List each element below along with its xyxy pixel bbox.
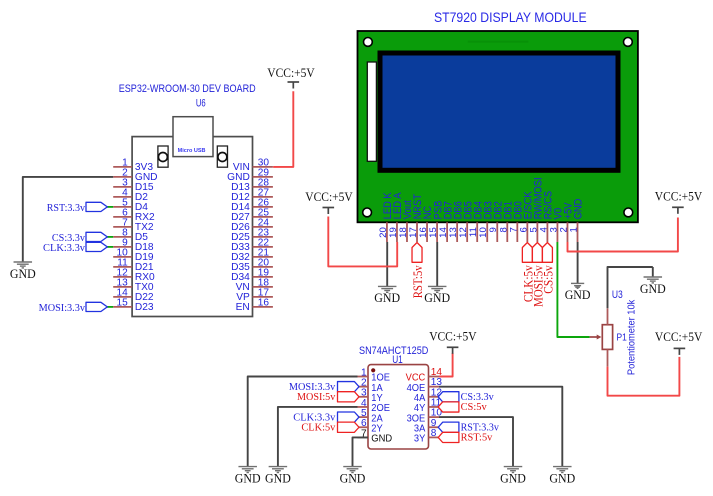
svg-text:VCC:+5V: VCC:+5V: [655, 189, 702, 203]
svg-text:GND: GND: [371, 434, 392, 445]
svg-text:GND: GND: [235, 470, 261, 485]
svg-text:19: 19: [388, 227, 399, 238]
svg-text:MOSI:5v: MOSI:5v: [297, 391, 336, 403]
svg-text:LED K: LED K: [382, 192, 394, 219]
svg-text:3Y: 3Y: [414, 434, 426, 445]
svg-text:15: 15: [116, 298, 128, 309]
svg-text:GND: GND: [565, 287, 591, 302]
svg-text:5: 5: [528, 227, 539, 232]
svg-text:1: 1: [569, 227, 580, 232]
svg-text:CS:5v: CS:5v: [461, 401, 488, 413]
svg-text:7: 7: [508, 227, 519, 232]
svg-text:17: 17: [408, 227, 419, 238]
svg-text:GND: GND: [374, 290, 400, 305]
svg-text:U6: U6: [196, 97, 206, 109]
svg-text:Micro USB: Micro USB: [178, 148, 206, 154]
svg-text:6: 6: [518, 227, 529, 232]
svg-text:GND: GND: [265, 470, 291, 485]
svg-text:GND: GND: [340, 470, 366, 485]
svg-text:MOSI:3.3v: MOSI:3.3v: [39, 302, 86, 314]
svg-text:12: 12: [458, 227, 469, 238]
svg-text:RST:5v: RST:5v: [461, 431, 493, 443]
svg-text:VCC:+5V: VCC:+5V: [429, 329, 476, 343]
svg-text:D23: D23: [135, 302, 154, 313]
svg-text:EN: EN: [236, 302, 250, 313]
svg-text:GND: GND: [549, 470, 575, 485]
svg-text:13: 13: [448, 227, 459, 238]
svg-text:P1: P1: [617, 332, 628, 343]
svg-text:16: 16: [418, 227, 429, 238]
svg-text:RST:5v: RST:5v: [411, 265, 425, 299]
svg-text:GND: GND: [500, 470, 526, 485]
svg-text:CS:5v: CS:5v: [541, 265, 555, 294]
svg-text:14: 14: [438, 227, 449, 238]
svg-text:Potentiometer 10k: Potentiometer 10k: [627, 299, 638, 375]
svg-text:ESP32-WROOM-30 DEV BOARD: ESP32-WROOM-30 DEV BOARD: [119, 83, 256, 95]
svg-text:U3: U3: [612, 289, 623, 301]
svg-text:11: 11: [468, 227, 479, 237]
svg-text:3: 3: [548, 227, 559, 232]
svg-text:10: 10: [478, 227, 489, 238]
svg-text:15: 15: [428, 227, 439, 238]
svg-text:CLK:3.3v: CLK:3.3v: [43, 242, 85, 254]
svg-text:9: 9: [488, 227, 499, 232]
svg-text:ST7920 DISPLAY MODULE: ST7920 DISPLAY MODULE: [434, 9, 587, 25]
svg-text:GND: GND: [424, 290, 450, 305]
svg-text:8: 8: [498, 227, 509, 232]
svg-text:20: 20: [378, 227, 389, 238]
svg-text:VCC:+5V: VCC:+5V: [655, 330, 702, 344]
svg-text:VCC:+5V: VCC:+5V: [267, 66, 314, 80]
svg-text:GND: GND: [10, 266, 36, 281]
svg-text:GND: GND: [640, 281, 666, 296]
svg-text:VCC:+5V: VCC:+5V: [305, 190, 352, 204]
svg-text:2: 2: [558, 227, 569, 232]
svg-text:18: 18: [398, 227, 409, 238]
svg-text:4: 4: [538, 227, 549, 233]
svg-text:CLK:5v: CLK:5v: [301, 422, 335, 434]
svg-text:16: 16: [258, 298, 270, 309]
svg-text:RST:3.3v: RST:3.3v: [47, 202, 86, 214]
svg-text:8: 8: [431, 428, 437, 439]
